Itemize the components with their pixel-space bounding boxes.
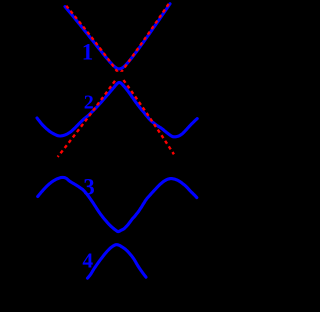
curve 2 (second adiabatic level) <box>37 83 197 137</box>
crossing mask patch <box>111 72 127 80</box>
curve 1 (upper adiabatic level) <box>65 4 170 69</box>
red dashed diabatic line A (upper-left to lower-right) <box>66 6 174 155</box>
svg-text:1: 1 <box>82 39 94 64</box>
svg-text:4: 4 <box>82 248 93 272</box>
red dashed diabatic line B (upper-right to lower-left) <box>58 4 169 157</box>
curve 4 (fourth adiabatic level) <box>88 245 147 279</box>
svg-text:3: 3 <box>83 174 95 199</box>
svg-text:2: 2 <box>84 92 94 114</box>
curve 3 (third adiabatic level) <box>38 177 197 231</box>
